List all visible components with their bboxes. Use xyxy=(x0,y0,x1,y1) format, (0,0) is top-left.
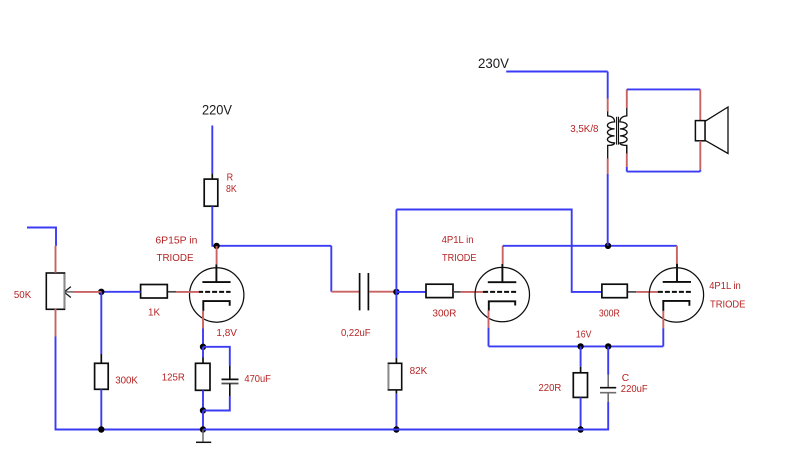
resistor R 8K xyxy=(204,179,218,206)
wire 470uF bottom branch xyxy=(203,384,230,411)
wire cathode to node xyxy=(202,329,204,347)
wire grid top line to second 4P1L xyxy=(396,210,602,292)
tube U1 6P15P xyxy=(190,264,244,322)
transformer T1 core xyxy=(617,117,619,145)
svg-text:R: R xyxy=(227,173,234,184)
wire primary top pin (salmon) xyxy=(607,99,609,112)
wire ground rail xyxy=(203,429,581,431)
wire pot bottom pin (salmon) xyxy=(55,309,57,337)
resistor 300R second xyxy=(602,284,627,298)
resistor 125R xyxy=(196,363,211,390)
svg-text:1K: 1K xyxy=(148,308,160,319)
ground symbol xyxy=(196,430,211,443)
tube U3 4P1L second xyxy=(649,264,703,322)
wire 220R top lead xyxy=(580,346,582,372)
wire 300K to ground rail xyxy=(100,389,102,429)
label 4P1L in second xyxy=(709,281,741,292)
svg-text:TRIODE: TRIODE xyxy=(710,299,746,310)
wire pot bottom to ground rail xyxy=(56,337,204,430)
label C 220uF xyxy=(621,373,648,395)
wire anode line to transformer xyxy=(503,245,677,247)
svg-text:TRIODE: TRIODE xyxy=(442,253,477,264)
wire secondary bottom loop xyxy=(627,167,701,172)
resistor 300R first xyxy=(426,284,461,297)
label 6P15P in xyxy=(155,236,197,247)
label 1K xyxy=(148,308,160,319)
svg-text:220R: 220R xyxy=(539,383,562,394)
wire speaker bottom pin (salmon) xyxy=(699,141,701,170)
wire speaker top pin (salmon) xyxy=(699,89,701,120)
svg-text:4P1L in: 4P1L in xyxy=(442,235,474,246)
node anode 6P15P junction xyxy=(213,243,219,249)
wire cathode pin 4P1L second (salmon) xyxy=(662,311,664,328)
wire cathode pin 4P1L first (salmon) xyxy=(488,310,490,327)
resistor 220R xyxy=(573,373,587,398)
wire R 8K to anode node corner xyxy=(211,206,331,246)
capacitor 0,22uF xyxy=(360,273,369,310)
label 300R second xyxy=(599,309,620,320)
node 220R top junction xyxy=(577,343,583,349)
transformer T1 primary winding xyxy=(607,111,614,158)
wire wiper node to 1K xyxy=(101,291,140,293)
wire 0,22uF left pin (salmon) xyxy=(331,291,359,293)
node 125R bottom junction xyxy=(200,407,206,413)
wire grid pin 4P1L second (salmon) xyxy=(636,291,658,293)
label 125R xyxy=(162,373,185,384)
wire cathode node to ground rail xyxy=(202,411,204,430)
wire 125R bottom to node xyxy=(202,390,204,410)
capacitor 470uF xyxy=(222,379,239,383)
wire 220R bottom lead xyxy=(580,397,582,429)
svg-text:300R: 300R xyxy=(432,309,456,320)
label 4P1L in first xyxy=(442,235,474,246)
label 1,8V xyxy=(216,328,237,339)
resistor 82K xyxy=(388,363,401,390)
node ground rail junction xyxy=(200,426,206,432)
label 16V xyxy=(576,330,592,341)
potentiometer 50K body xyxy=(46,273,64,309)
label R 8K xyxy=(226,173,237,195)
wire primary bottom to anode node xyxy=(607,174,609,246)
node cathode 6P15P xyxy=(200,344,206,350)
node 82K ground junction xyxy=(393,426,399,432)
wire 300R second lead xyxy=(627,291,636,293)
resistor 300K xyxy=(95,363,109,389)
node 220uF top junction xyxy=(605,343,611,349)
svg-text:300K: 300K xyxy=(115,375,138,386)
wire wiper node down to 300K xyxy=(100,292,102,364)
wire cathode pin 6P15P (salmon) xyxy=(202,311,204,329)
label 300R first xyxy=(432,309,456,320)
wire 470uF top branch xyxy=(203,347,230,380)
node 300K ground junction xyxy=(98,426,104,432)
capacitor C 220uF xyxy=(600,388,616,393)
wire 0,22uF right pin (salmon) xyxy=(369,291,396,293)
potentiometer 50K wiper arrow xyxy=(64,287,74,298)
svg-text:3,5K/8: 3,5K/8 xyxy=(570,124,599,135)
wire anode lead 6P15P xyxy=(216,246,218,264)
wire grid pin 4P1L first (salmon) xyxy=(461,291,484,293)
svg-text:125R: 125R xyxy=(162,373,185,384)
wire secondary top pin (salmon) xyxy=(626,89,628,108)
label TRIODE xyxy=(157,253,194,264)
wire 230V feed xyxy=(506,72,608,99)
wire 82K to ground rail xyxy=(395,390,397,430)
label 50K xyxy=(14,290,31,301)
wire anode pin 4P1L second (salmon) xyxy=(676,246,678,264)
svg-text:82K: 82K xyxy=(410,366,428,377)
wire coupling node corner xyxy=(330,246,332,292)
speaker LS1 xyxy=(695,107,728,154)
svg-text:0,22uF: 0,22uF xyxy=(341,328,371,339)
svg-text:300R: 300R xyxy=(599,309,620,320)
svg-text:220V: 220V xyxy=(202,102,232,117)
resistor 1K xyxy=(141,285,177,299)
wire pot top pin (salmon) xyxy=(55,246,57,273)
label TRIODE first xyxy=(442,253,477,264)
svg-text:16V: 16V xyxy=(576,330,592,341)
svg-text:1,8V: 1,8V xyxy=(216,328,237,339)
label 220R xyxy=(539,383,562,394)
node transformer junction xyxy=(605,243,611,249)
label 300K xyxy=(115,375,138,386)
label 3,5K/8 xyxy=(570,124,599,135)
svg-text:220uF: 220uF xyxy=(621,384,648,395)
svg-text:TRIODE: TRIODE xyxy=(157,253,194,264)
wire cathode rail 16V xyxy=(489,328,664,347)
label 82K xyxy=(410,366,428,377)
wire grid node vertical xyxy=(395,210,397,364)
label 0,22uF xyxy=(341,328,371,339)
svg-text:230V: 230V xyxy=(478,56,509,71)
wire secondary top loop xyxy=(627,88,701,90)
wire cathode node down to 125R xyxy=(202,347,204,364)
svg-text:8K: 8K xyxy=(226,184,237,195)
node 220R ground junction xyxy=(577,426,583,432)
svg-text:6P15P in: 6P15P in xyxy=(155,236,197,247)
svg-text:50K: 50K xyxy=(14,290,31,301)
transformer T1 secondary winding xyxy=(620,108,627,159)
wire grid node to 300R first xyxy=(396,291,426,293)
wire 220uF top lead xyxy=(607,346,609,387)
wire secondary bottom pin (salmon) xyxy=(626,145,628,167)
wire primary bottom pin (salmon) xyxy=(607,159,609,175)
svg-text:C: C xyxy=(622,373,629,384)
label 470uF xyxy=(244,374,271,385)
svg-text:470uF: 470uF xyxy=(244,374,271,385)
label TRIODE second xyxy=(710,299,746,310)
wire input stub xyxy=(27,228,56,246)
node grid feed junction xyxy=(393,289,399,295)
wire anode pin 4P1L first (salmon) xyxy=(502,246,504,264)
node wiper junction xyxy=(98,289,104,295)
tube U2 4P1L first xyxy=(475,264,529,322)
wire grid pin 6P15P (salmon) xyxy=(176,291,199,293)
wire wiper shaft (salmon) xyxy=(74,291,102,293)
label 220V supply xyxy=(202,102,232,117)
wire 220V feed down to R 8K xyxy=(211,126,213,180)
svg-text:4P1L in: 4P1L in xyxy=(709,281,741,292)
wire 220uF bottom lead xyxy=(581,393,609,430)
label 230V supply xyxy=(478,56,509,71)
